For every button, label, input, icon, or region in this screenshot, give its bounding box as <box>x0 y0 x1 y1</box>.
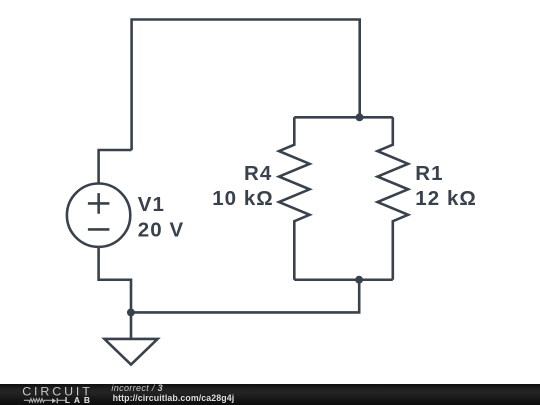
svg-text:20 V: 20 V <box>138 219 184 242</box>
svg-text:LAB: LAB <box>65 395 94 405</box>
svg-text:V1: V1 <box>138 193 165 216</box>
svg-text:R1: R1 <box>415 162 443 185</box>
svg-text:10 kΩ: 10 kΩ <box>212 187 274 210</box>
svg-text:12 kΩ: 12 kΩ <box>415 187 477 210</box>
svg-text:R4: R4 <box>244 162 272 185</box>
